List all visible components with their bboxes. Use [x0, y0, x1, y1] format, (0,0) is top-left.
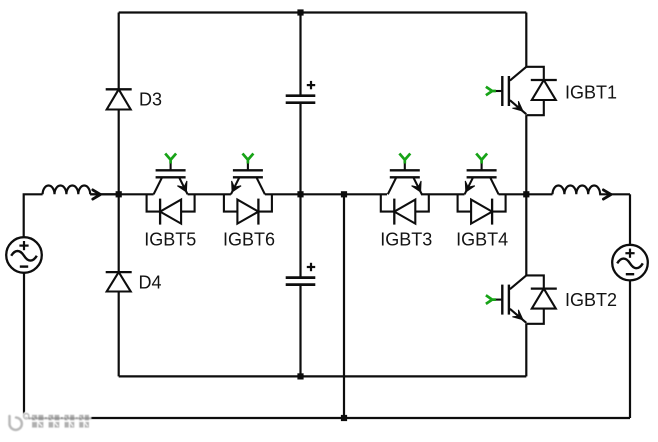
wire outer bottom rail: [24, 417, 630, 419]
transistor IGBT6: [224, 162, 272, 225]
wire capacitor C1 bottom lead: [299, 103, 301, 195]
arrow current direction L1: [93, 190, 101, 199]
label IGBT6: [223, 230, 275, 250]
node junction mid-rail / IGBT1-IGBT2 branch: [523, 191, 529, 197]
wire mid rail segment IGBT3-IGBT4: [421, 193, 465, 195]
wire D4 cathode lead: [118, 194, 120, 271]
transistor IGBT5: [147, 162, 195, 225]
wire mid rail segment IGBT6-IGBT3: [265, 193, 387, 195]
label IGBT5: [144, 230, 196, 250]
wire mid rail segment right of inductor L2: [599, 193, 630, 195]
svg-text:D4: D4: [139, 273, 162, 293]
diode D4: [106, 272, 132, 291]
wire D3 anode lead: [118, 110, 120, 195]
svg-text:IGBT5: IGBT5: [144, 230, 196, 250]
capacitor C2 (+): [286, 263, 316, 285]
gate terminal IGBT6: [243, 154, 254, 164]
inductor L2: [553, 185, 601, 194]
wire mid rail segment IGBT5-IGBT6: [188, 193, 231, 195]
transistor IGBT1: [494, 67, 557, 115]
label IGBT2: [565, 290, 617, 310]
gate terminal IGBT2: [486, 295, 496, 304]
capacitor C1 (+): [286, 81, 316, 103]
wire right source bottom lead: [629, 280, 631, 418]
arrow current direction L2: [603, 190, 611, 199]
label D4: [139, 273, 162, 293]
node junction inner-bottom-rail / capacitor branch: [297, 373, 303, 379]
svg-text:IGBT2: IGBT2: [565, 290, 617, 310]
gate terminal IGBT3: [399, 154, 410, 164]
wire D3 cathode lead: [118, 13, 120, 89]
gate terminal IGBT5: [165, 154, 176, 164]
label IGBT1: [565, 83, 617, 103]
wire capacitor C2 top lead: [299, 194, 301, 277]
svg-text:IGBT4: IGBT4: [456, 230, 508, 250]
wire mid rail segment IGBT4 to right: [499, 193, 553, 195]
svg-text:IGBT3: IGBT3: [380, 230, 432, 250]
wire IGBT2 collector lead: [525, 194, 527, 275]
node junction mid-rail / return branch: [341, 191, 347, 197]
node junction mid-rail / diode branch: [116, 191, 122, 197]
wire under L1 arrow: [90, 193, 119, 195]
transistor IGBT3: [381, 162, 429, 225]
ac source V2: [612, 245, 648, 281]
wire inner bottom rail (node N): [119, 375, 527, 377]
gate terminal IGBT4: [476, 154, 487, 164]
wire IGBT1 emitter lead: [525, 115, 527, 194]
transistor IGBT2: [494, 275, 557, 323]
wire D4 anode lead: [118, 292, 120, 377]
ac source V1: [6, 237, 42, 273]
inductor L1: [43, 186, 91, 195]
wire IGBT2 emitter lead: [525, 324, 527, 377]
wire mid rail segment left of IGBT5: [90, 193, 153, 195]
wire left source bottom lead: [23, 273, 25, 418]
svg-text:D3: D3: [139, 90, 162, 110]
label IGBT4: [456, 230, 508, 250]
svg-text:IGBT6: IGBT6: [223, 230, 275, 250]
wire capacitor C1 top lead: [299, 13, 301, 96]
transistor IGBT4: [458, 162, 506, 225]
wire capacitor C2 bottom lead: [299, 285, 301, 377]
watermark logo and text: [9, 414, 91, 430]
node junction mid-rail / capacitor branch: [297, 191, 303, 197]
node junction outer-bottom-rail / return branch: [341, 415, 347, 421]
label D3: [139, 90, 162, 110]
gate terminal IGBT1: [486, 87, 496, 96]
diode D3: [106, 89, 132, 109]
label IGBT3: [380, 230, 432, 250]
wire right source top lead: [629, 194, 631, 245]
wire mid-rail to outer-bottom return: [343, 194, 345, 418]
node junction top-rail / capacitor branch: [297, 9, 303, 15]
wire left source top lead: [24, 194, 43, 237]
wire IGBT1 collector lead: [525, 13, 527, 67]
svg-text:IGBT1: IGBT1: [565, 83, 617, 103]
wire top rail (node P): [119, 11, 527, 13]
